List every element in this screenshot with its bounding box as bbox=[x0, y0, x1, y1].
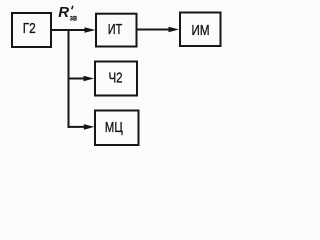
svg-text:Г2: Г2 bbox=[23, 20, 36, 37]
block МЦ bbox=[95, 111, 139, 146]
block Ч2 bbox=[95, 62, 137, 96]
arrowhead into ИМ bbox=[169, 27, 180, 33]
svg-text:ИМ: ИМ bbox=[192, 22, 210, 39]
wire ИТ to ИМ bbox=[137, 29, 170, 31]
svg-text:МЦ: МЦ bbox=[105, 119, 123, 136]
block Г2 bbox=[12, 13, 51, 47]
label R'зв bbox=[58, 4, 77, 23]
block ИТ bbox=[96, 14, 137, 47]
block ИМ bbox=[180, 13, 221, 47]
arrowhead into ИТ bbox=[85, 27, 96, 33]
svg-text:Ч2: Ч2 bbox=[109, 70, 123, 87]
wire branch to Ч2 bbox=[68, 78, 86, 80]
arrowhead into МЦ bbox=[84, 124, 95, 130]
svg-text:R: R bbox=[58, 4, 69, 21]
wire Г2 to ИТ bbox=[52, 29, 86, 31]
arrowhead into Ч2 bbox=[84, 76, 95, 82]
wire vertical bus from junction bbox=[68, 29, 70, 128]
svg-text:ИТ: ИТ bbox=[108, 21, 123, 38]
wire branch to МЦ bbox=[68, 126, 86, 128]
svg-text:зв: зв bbox=[70, 12, 77, 22]
